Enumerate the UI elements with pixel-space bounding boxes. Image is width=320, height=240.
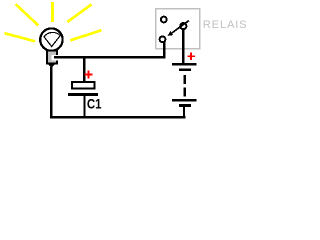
lamp LA1 bulb glass xyxy=(40,28,62,50)
wire bottom horizontal xyxy=(50,116,185,118)
wire capacitor bottom lead xyxy=(83,96,85,117)
lamp bottom contact tip xyxy=(47,63,55,68)
relay K1 outline box xyxy=(156,9,200,49)
battery dashed link segment 1 xyxy=(183,75,186,84)
battery cell 2 negative plate xyxy=(179,104,191,107)
lamp ray vertical xyxy=(51,2,54,22)
battery dashed link segment 2 xyxy=(183,88,186,97)
lamp ray upper-left xyxy=(16,4,39,25)
lamp ray right-shallow xyxy=(70,30,101,40)
wire lamp left vertical xyxy=(50,67,53,117)
label C1 xyxy=(87,95,102,111)
capacitor C1 negative plate xyxy=(68,93,98,96)
wire relay common pin down xyxy=(163,42,165,58)
lamp socket notch xyxy=(52,55,59,61)
relay contact pin NC (top-left) xyxy=(161,17,167,23)
relay armature lever xyxy=(172,21,189,33)
wire capacitor top lead xyxy=(83,57,85,81)
relay armature arrowhead xyxy=(168,31,174,36)
wire battery negative down xyxy=(183,107,185,117)
capacitor C1 positive plate box xyxy=(72,82,95,89)
battery plus polarity mark xyxy=(187,53,195,60)
label RELAIS xyxy=(203,19,248,31)
relay armature pivot circle xyxy=(180,23,186,29)
wire top horizontal (lamp to relay) xyxy=(54,56,166,58)
battery cell 1 positive plate xyxy=(172,63,196,66)
svg-text:RELAIS: RELAIS xyxy=(203,19,246,31)
svg-text:C1: C1 xyxy=(87,95,102,111)
lamp socket base xyxy=(47,50,57,63)
lamp ray left-shallow xyxy=(5,33,36,41)
wire relay coil pin to battery xyxy=(182,30,184,65)
battery cell 2 positive plate xyxy=(172,99,196,102)
lamp ray upper-right xyxy=(67,4,91,22)
lamp filament cone xyxy=(44,32,60,46)
relay contact pin common (bottom-left) xyxy=(160,36,166,42)
battery cell 1 negative plate xyxy=(179,68,191,71)
capacitor C1 plus polarity mark xyxy=(84,71,92,79)
